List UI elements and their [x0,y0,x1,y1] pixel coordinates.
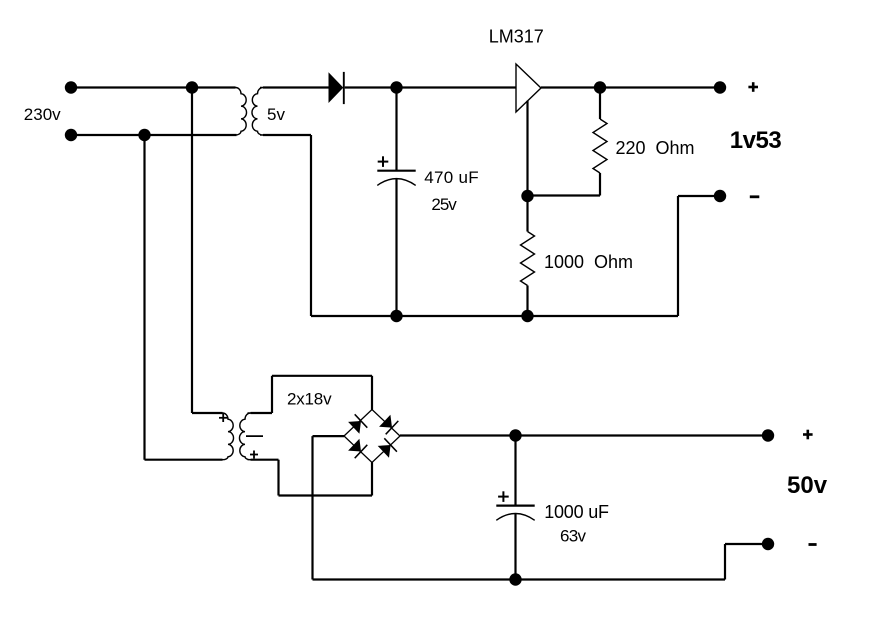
capacitor C2 1000uF top lead [514,436,516,506]
wire LM317 output [541,86,720,88]
svg-text:2x18v: 2x18v [287,390,332,409]
node 230v input terminal bottom [65,129,77,141]
node junction filter cap top [390,81,402,93]
transformer T1 secondary winding [252,88,263,136]
diode D5 bridge bottom-right [378,445,391,458]
node output terminal 50v - [762,538,774,550]
svg-text:63v: 63v [560,526,587,545]
node junction R1 top [594,81,606,93]
wire to T2 primary top [192,412,223,414]
resistor R1 220 Ohm [593,119,607,173]
resistor R2 1000 Ohm [521,232,535,286]
capacitor C2 bottom lead [514,514,516,580]
node junction C2 bottom [509,573,521,585]
diode D1 rectifier [329,72,344,103]
node junction C2 top [509,429,521,441]
label output plus sign [748,82,758,92]
svg-text:5v: 5v [267,105,285,124]
wire LM317 adj pin [526,101,528,232]
capacitor C2 1000uF [496,505,534,507]
svg-text:50v: 50v [787,472,828,499]
wire bottom rail 50v [313,578,726,580]
wire diode D1 to LM317 input [345,86,516,88]
svg-text:25v: 25v [431,195,457,214]
svg-text:470 uF: 470 uF [424,168,479,187]
wire T1 secondary bottom [263,134,311,136]
wire T2 secondary top to bridge [251,412,273,414]
capacitor C1 polarity + [378,156,389,167]
diode D2 bridge left-top [348,421,361,434]
transformer T1 primary winding [233,88,247,136]
wire T2 secondary bottom to bridge [251,459,279,461]
capacitor C1 470uF [377,170,415,172]
wire bottom rail top circuit [397,315,679,317]
diode D3 bridge top-right [379,415,392,428]
node junction R2 bottom rail [521,310,533,322]
svg-text:1000 uF: 1000 uF [544,502,609,522]
node output terminal 1v53 + [714,81,726,93]
svg-text:1000 Ohm: 1000 Ohm [544,252,633,272]
op-amp style regulator U1 LM317 triangle [516,64,541,112]
capacitor C1 470uF top lead [395,88,397,171]
node junction lower input [138,129,150,141]
wire bridge minus to left [313,435,345,437]
wire vertical from top junction to T2 primary [191,88,193,414]
label 50v minus sign [809,543,817,546]
label output minus sign [750,195,760,198]
node 230v input terminal top [65,81,77,93]
wire R1 bottom lead [599,173,601,196]
wire negative return up [677,196,679,316]
wire 50v negative to terminal [725,543,768,545]
node junction C1 bottom rail [390,310,402,322]
svg-text:220 Ohm: 220 Ohm [616,138,695,158]
wire bridge plus rail [400,434,768,436]
svg-text:1v53: 1v53 [730,127,782,154]
svg-text:LM317: LM317 [489,27,544,47]
wire vertical from lower junction to T2 primary [143,135,145,460]
transformer T2 primary winding [220,413,234,460]
wire R2 bottom lead [526,286,528,317]
transformer T2 secondary winding [239,413,250,460]
node output terminal 1v53 - [714,190,726,202]
node output terminal 50v + [762,429,774,441]
wire lower input 230v line [71,134,237,136]
capacitor C1 bottom lead [395,179,397,316]
wire negative return to terminal [678,195,720,197]
capacitor C2 polarity + [498,491,509,502]
label T2 secondary polarity + [250,451,258,459]
wire T2 center tap stub [246,435,263,437]
diode D4 bridge left-bottom [348,439,361,452]
node junction top input [186,81,198,93]
bridge rectifier diamond [344,410,400,463]
label T2 primary polarity + [219,414,227,422]
wire top input 230v line [71,86,236,88]
wire 50v negative up [724,544,726,580]
wire R1 top lead [599,88,601,120]
wire to T2 primary bottom [145,459,223,461]
node junction adj [521,190,533,202]
wire T1 secondary top to diode D1 [263,86,329,88]
svg-text:230v: 230v [24,105,61,124]
label 50v plus sign [803,430,813,440]
